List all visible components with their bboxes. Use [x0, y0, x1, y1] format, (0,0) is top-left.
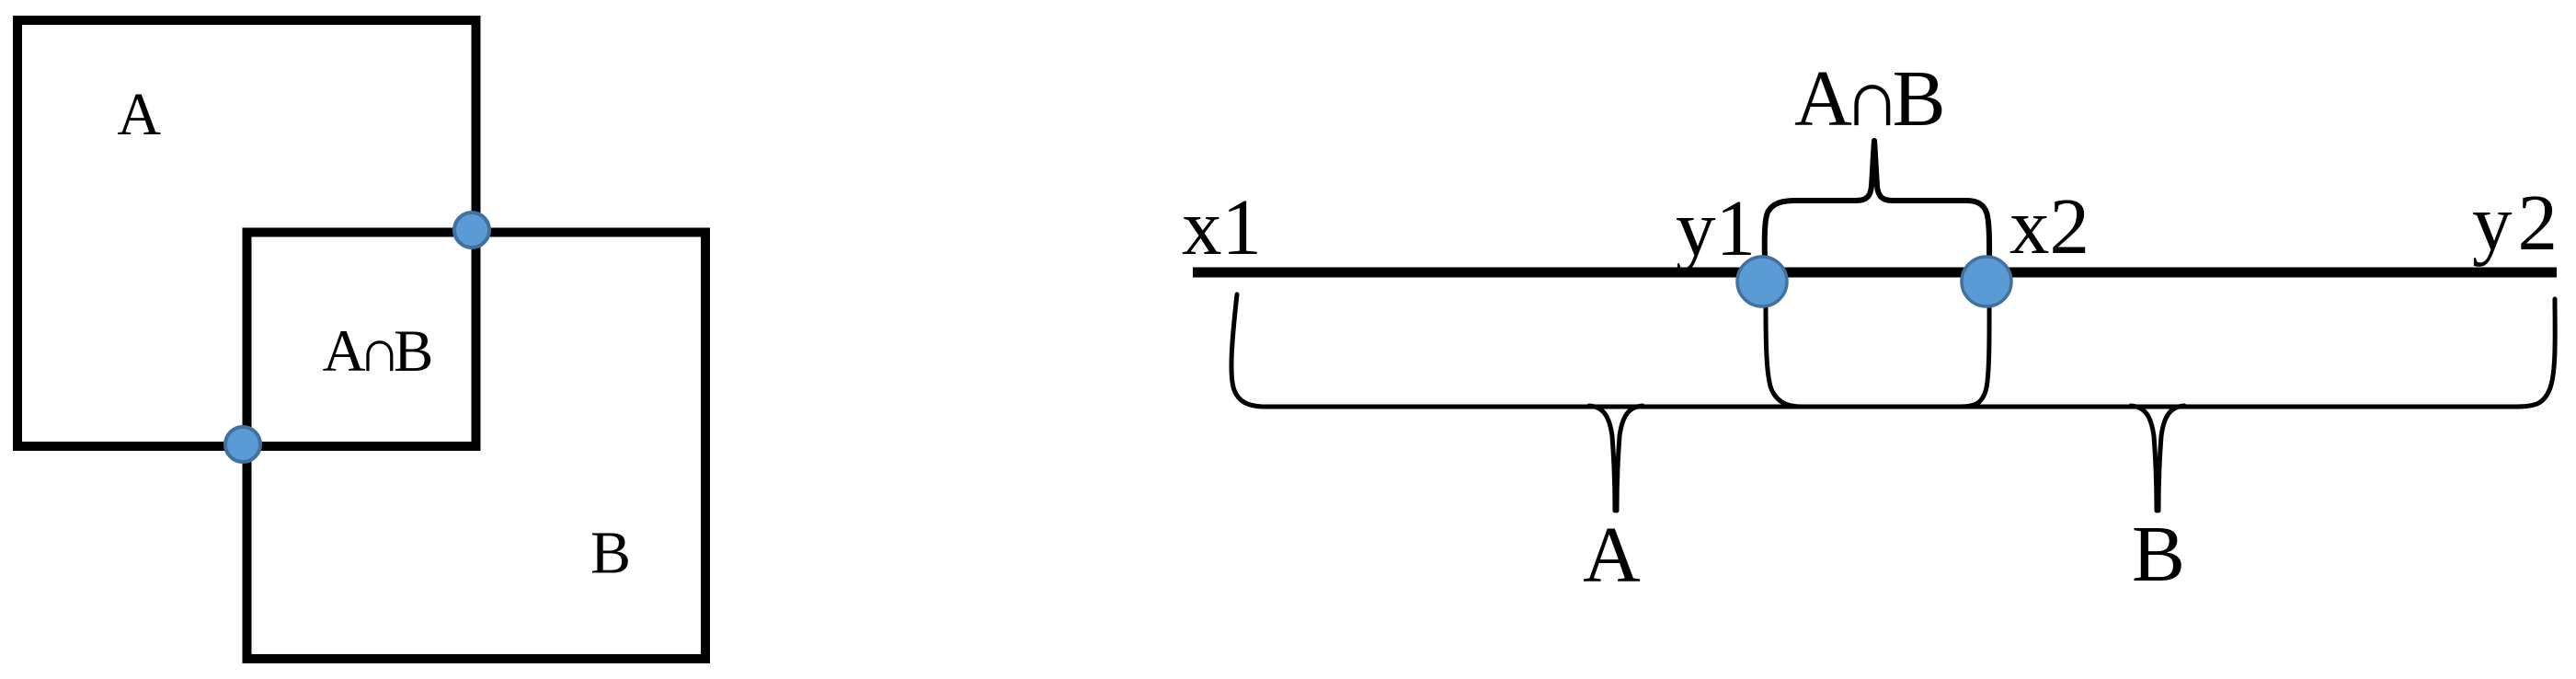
svg-text:A: A [117, 81, 161, 148]
svg-text:x2: x2 [2009, 181, 2089, 270]
svg-text:x1: x1 [1182, 182, 1262, 271]
svg-text:B: B [590, 520, 631, 587]
svg-text:y1: y1 [1676, 183, 1756, 272]
svg-text:A∩B: A∩B [1794, 53, 1946, 143]
svg-text:B: B [2132, 509, 2185, 598]
svg-text:y2: y2 [2472, 178, 2558, 267]
svg-text:A∩B: A∩B [323, 318, 434, 385]
svg-text:A: A [1583, 510, 1641, 599]
